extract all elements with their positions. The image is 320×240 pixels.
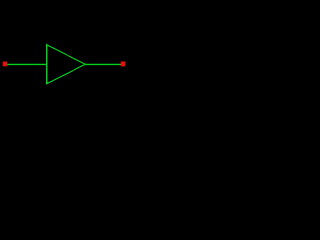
wire <box>7 63 46 65</box>
port P1 <box>3 62 7 67</box>
port P2 <box>121 62 126 67</box>
wire <box>85 63 121 65</box>
buffer U1 <box>47 45 85 84</box>
